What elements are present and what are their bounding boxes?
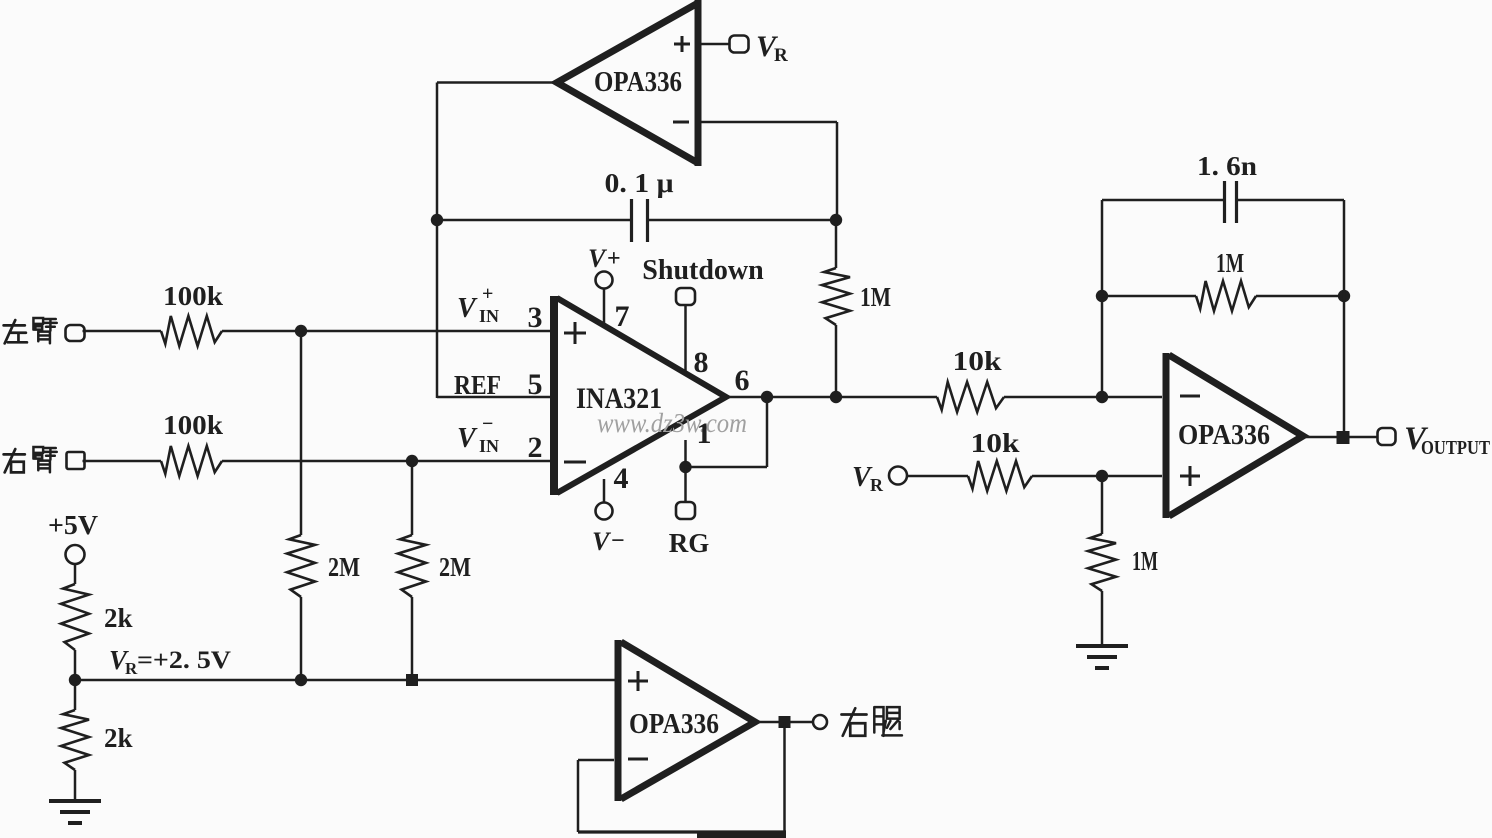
label right-leg (you tui): [842, 708, 867, 736]
op-amp U3 OPA336 right-leg driver: [615, 640, 622, 801]
wire node down to R5: [411, 461, 414, 535]
resistor R10 10k: [968, 461, 1032, 491]
svg-text:OPA336: OPA336: [594, 67, 682, 98]
resistor R1 100k: [161, 316, 222, 346]
wire cap right: [648, 219, 836, 222]
wire cap top right: [1237, 199, 1344, 202]
svg-text:2M: 2M: [439, 552, 471, 582]
svg-text:2M: 2M: [328, 552, 360, 582]
svg-text:6: 6: [735, 364, 750, 397]
svg-text:7: 7: [615, 300, 630, 333]
svg-text:OPA336: OPA336: [1178, 420, 1270, 451]
terminal V+ pin7: [596, 272, 613, 289]
wire R3 to VR rail: [300, 597, 303, 680]
svg-text:+: +: [482, 283, 493, 305]
wire pin7: [603, 289, 606, 327]
svg-text:V: V: [592, 527, 612, 556]
terminal VR (top): [730, 36, 749, 53]
svg-text:REF: REF: [454, 370, 501, 400]
wire R6 to node VR: [74, 650, 77, 685]
wire R7 2k down: [74, 686, 77, 710]
svg-text:R: R: [774, 45, 788, 66]
label right-arm (you bi): [4, 449, 25, 472]
wire +5V to R6: [74, 564, 77, 584]
capacitor C1 0.1u plates: [630, 199, 633, 242]
svg-text:100k: 100k: [163, 281, 223, 311]
node left-arm junction: [295, 325, 307, 337]
terminal RG: [676, 502, 695, 519]
svg-text:=+2. 5V: =+2. 5V: [137, 647, 231, 674]
wire R10 to U4 +: [1032, 475, 1162, 478]
node output junction pin6: [761, 391, 773, 403]
resistor R9 1M feedback: [1196, 281, 1256, 311]
svg-text:−: −: [611, 528, 625, 554]
svg-text:0. 1 μ: 0. 1 μ: [605, 168, 674, 198]
wire R2 to output rail: [835, 325, 838, 397]
wire cap top left: [1102, 199, 1224, 202]
wire R8 to U4 -: [1004, 396, 1162, 399]
svg-text:1M: 1M: [860, 282, 891, 312]
wire feedback vertical right: [1343, 200, 1346, 438]
svg-text:1M: 1M: [1132, 546, 1158, 576]
svg-text:OPA336: OPA336: [629, 709, 719, 740]
resistor R6 2k: [61, 584, 89, 650]
terminal left-arm: [66, 325, 85, 341]
svg-text:R: R: [870, 475, 884, 495]
svg-text:Shutdown: Shutdown: [642, 255, 764, 286]
wire VR rail: [75, 679, 617, 682]
svg-text:2k: 2k: [104, 603, 133, 633]
op-amp U4 OPA336 output stage: [1163, 353, 1170, 518]
resistor R3 2M vertical: [287, 535, 315, 597]
ground (left divider): [49, 799, 101, 803]
wire left vertical x=437: [436, 83, 439, 399]
svg-text:www.dz3w.com: www.dz3w.com: [597, 408, 747, 438]
label left-arm (zuo bi): [4, 320, 27, 343]
node feedback 1M left: [1096, 290, 1108, 302]
wire pin1 to right: [686, 466, 768, 469]
capacitor C2 1.6n plates: [1223, 181, 1226, 223]
wire pin6 output: [726, 396, 767, 399]
ground (R11): [1076, 644, 1128, 648]
svg-text:4: 4: [614, 462, 629, 495]
wire right-arm to R4: [83, 460, 162, 463]
wire U3 output: [755, 721, 812, 724]
svg-text:1M: 1M: [1216, 248, 1244, 278]
node junction pin1: [679, 461, 691, 473]
svg-text:2k: 2k: [104, 723, 133, 753]
svg-text:1. 6n: 1. 6n: [1197, 151, 1257, 181]
wire pin1 down: [684, 440, 687, 467]
wire pin1 junction to RG: [684, 467, 687, 502]
wire U3 feedback left up: [577, 760, 580, 832]
svg-text:3: 3: [528, 301, 543, 334]
resistor R7 2k: [61, 710, 89, 770]
terminal right-leg: [813, 715, 827, 729]
wire feedback vertical left: [1101, 200, 1104, 397]
wire R5 to VR rail: [411, 597, 414, 680]
wire pin4: [603, 479, 606, 502]
node noninverting input: [1096, 470, 1108, 482]
node junction right cap: [830, 214, 842, 226]
wire R9 1M left: [1102, 295, 1196, 298]
wire U1 + input to VR terminal: [701, 43, 729, 46]
svg-text:IN: IN: [479, 306, 499, 326]
wire U1 - input to right vertical: [701, 121, 837, 124]
op-amp U1 OPA336 reference buffer (points left): [695, 0, 702, 166]
wire U3 feedback down: [783, 722, 786, 832]
wire R1 to node: [222, 330, 550, 333]
wire U3 feedback bottom: [578, 830, 786, 833]
wire VR to R10: [907, 475, 968, 478]
wire pin5 REF: [437, 396, 550, 399]
wire up to output: [766, 397, 769, 467]
wire cap left: [437, 219, 630, 222]
svg-text:+5V: +5V: [48, 510, 99, 540]
wire to 1M resistor: [835, 220, 838, 268]
terminal right-arm: [67, 452, 85, 469]
svg-text:V: V: [457, 293, 478, 324]
node U3 output: [779, 716, 791, 728]
wire U3 feedback to - input: [578, 759, 614, 762]
resistor R5 2M vertical: [398, 535, 426, 597]
wire pin8 shutdown: [684, 305, 687, 374]
wire R9 1M right: [1256, 295, 1344, 298]
resistor R11 1M to ground: [1088, 534, 1116, 591]
terminal V- pin4: [596, 503, 613, 520]
node rail R5: [406, 674, 418, 686]
svg-text:2: 2: [528, 431, 543, 464]
node rail R3: [295, 674, 307, 686]
node junction left cap: [431, 214, 443, 226]
svg-text:10k: 10k: [971, 428, 1020, 458]
resistor R2 1M vertical: [822, 268, 850, 325]
op-amp U2 INA321 body: [550, 296, 558, 495]
node right-arm junction: [406, 455, 418, 467]
node feedback 1M right: [1338, 290, 1350, 302]
wire INA output rail: [767, 396, 937, 399]
wire R4 to pin2: [222, 460, 550, 463]
terminal +5V: [66, 545, 85, 564]
svg-text:V: V: [588, 244, 608, 273]
svg-text:+: +: [607, 246, 621, 272]
svg-text:10k: 10k: [953, 346, 1002, 376]
wire node to R11: [1101, 476, 1104, 534]
svg-text:8: 8: [694, 346, 709, 379]
wire right vertical to cap junction: [836, 122, 839, 220]
svg-text:IN: IN: [479, 436, 499, 456]
terminal VOUTPUT: [1378, 428, 1396, 445]
wire R7 to ground: [74, 770, 77, 801]
node inverting input: [1096, 391, 1108, 403]
terminal VR input: [889, 467, 907, 485]
svg-text:1: 1: [697, 417, 712, 450]
terminal Shutdown: [676, 288, 695, 305]
wire U1 output left: [437, 81, 557, 84]
resistor R4 100k: [161, 446, 222, 476]
svg-text:−: −: [482, 413, 493, 435]
svg-text:100k: 100k: [163, 410, 223, 440]
svg-text:OUTPUT: OUTPUT: [1421, 437, 1491, 459]
node U4 output: [1337, 431, 1350, 444]
svg-text:RG: RG: [669, 528, 710, 558]
wire left-arm to R1: [83, 330, 162, 333]
resistor R8 10k: [937, 382, 1004, 412]
svg-text:V: V: [457, 423, 478, 454]
node rail R2: [830, 391, 842, 403]
wire R11 to ground: [1101, 591, 1104, 646]
wire node down to R3: [300, 331, 303, 535]
wire U4 output: [1303, 436, 1378, 439]
node VR divider: [69, 674, 81, 686]
